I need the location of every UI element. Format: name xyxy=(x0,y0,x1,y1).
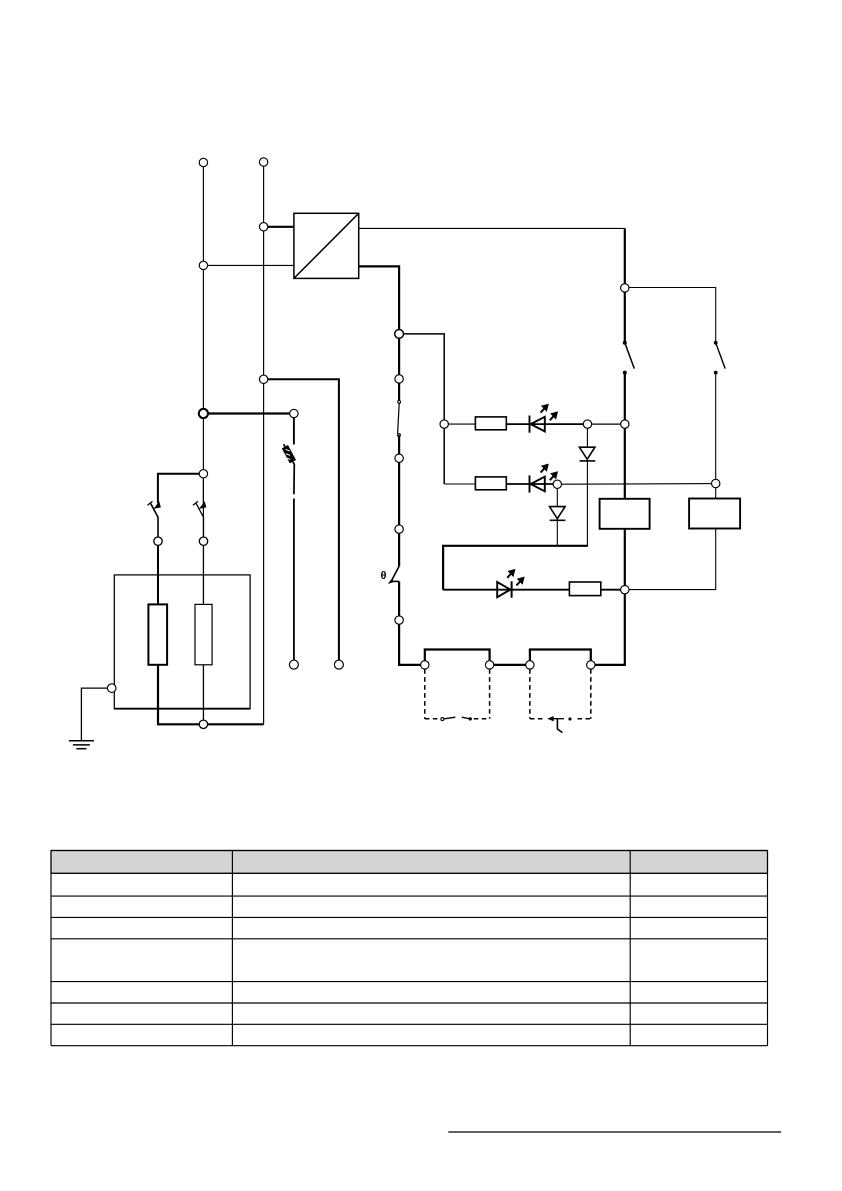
enclosure (heater housing) xyxy=(114,575,250,709)
svg-text:θ: θ xyxy=(381,570,387,582)
wire node A to node B xyxy=(588,423,625,425)
node LED3 / coil return xyxy=(621,586,629,594)
wire LED2 row right xyxy=(506,483,557,485)
ground symbol xyxy=(69,741,94,749)
wire main line x=399 down to switch xyxy=(398,334,400,402)
node A xyxy=(583,420,591,428)
node main line a xyxy=(395,375,403,383)
wire branch node 263 to x=339 riser xyxy=(264,379,339,664)
wire transformer primary input thin xyxy=(203,264,294,266)
node bus 2 xyxy=(485,661,493,669)
footer rule xyxy=(448,1131,781,1133)
wire right riser upper xyxy=(624,228,626,342)
wire bus between boxes xyxy=(490,664,530,666)
relay coil K1 xyxy=(600,499,650,529)
wire LED2 node to right branch thin xyxy=(557,483,715,486)
wire right branch down to node xyxy=(715,373,717,499)
switch Q1 left pole (heater circuit) xyxy=(148,474,204,537)
thermal switch theta xyxy=(388,566,399,583)
switch S5 on main line (closed) xyxy=(398,401,401,437)
wire bus to right riser xyxy=(591,373,625,665)
diode V2 (zener under LED2 node) xyxy=(550,484,566,546)
node main line b xyxy=(395,454,403,462)
node right branch xyxy=(712,479,720,487)
wire transformer primary input thick xyxy=(264,226,294,228)
node switch left bottom xyxy=(154,537,162,545)
dashed auxiliary contact box 2 xyxy=(530,669,591,719)
resistor R1 xyxy=(475,417,506,430)
node LED1 branch xyxy=(440,420,448,428)
wire main line down to bottom bus xyxy=(399,581,425,665)
auxiliary changeover switch in box 2 xyxy=(548,716,572,732)
dashed auxiliary contact box 1 xyxy=(425,669,490,719)
wire branch to second contact line xyxy=(625,288,716,343)
node transformer input 2 xyxy=(199,261,207,269)
wire main line to thermal switch xyxy=(398,435,400,566)
ground wire xyxy=(81,688,107,740)
node main branch xyxy=(395,330,404,339)
switch K1 contact (open) top right left xyxy=(623,341,634,374)
junction node circles xyxy=(107,158,720,729)
auxiliary switch in box 1 xyxy=(441,717,472,720)
node ground on enclosure xyxy=(107,684,116,693)
LED H3 (points right) xyxy=(497,581,511,597)
node neutral bus xyxy=(199,720,207,728)
wire N phase vertical line x=263.6 xyxy=(263,162,265,724)
node bus 3 xyxy=(526,661,534,669)
wire L phase vertical line x=203 xyxy=(202,163,204,725)
wire left heater feed xyxy=(157,545,159,604)
resistor R2 xyxy=(475,477,506,490)
LED H2 (points left) xyxy=(530,475,545,492)
wire heater E1 bottom to neutral bus xyxy=(158,665,264,725)
node N terminal xyxy=(259,158,267,166)
node LED2 / zener xyxy=(553,480,561,488)
node main line c xyxy=(395,525,403,533)
wire bus bump over contact box 1 xyxy=(425,650,490,665)
node L heater branch (bold) xyxy=(199,409,208,418)
wire from K2 coil bottom to LED3 node xyxy=(625,529,716,590)
wire bus bump over contact box 2 xyxy=(530,650,591,665)
node main line d xyxy=(395,616,403,624)
wire heater E2 bottom xyxy=(203,665,205,725)
wire LED3 row xyxy=(443,589,569,591)
heater element E2 xyxy=(195,604,212,664)
node transformer input xyxy=(259,223,267,231)
terminal x339 line xyxy=(334,660,343,669)
node top right xyxy=(621,284,629,292)
LED H2 emission arrows xyxy=(541,464,558,480)
table grid xyxy=(51,851,768,1046)
wire secondary output thin top xyxy=(359,227,625,229)
wire right heater feed xyxy=(203,545,205,604)
wire branch x=444 with LED rows xyxy=(399,334,444,484)
wire LED1 row right xyxy=(506,423,587,425)
node N branch xyxy=(259,375,267,383)
relay coil K2 xyxy=(689,499,740,529)
diode V1 (zener under node A) xyxy=(579,424,595,546)
LED H3 emission arrows xyxy=(507,569,524,585)
LED H1 emission arrows xyxy=(541,404,558,420)
power supply U1 (square with diagonal) xyxy=(294,213,359,278)
wire secondary output thick to main riser xyxy=(359,266,399,334)
wire thick collector line y=545.8 xyxy=(443,546,588,590)
fuse disconnector F1 xyxy=(281,418,295,665)
switch Q1 right pole (heater circuit) xyxy=(193,478,206,537)
node switch right bottom xyxy=(199,537,207,545)
enclosure bottom edge xyxy=(114,708,250,710)
wire LED2 row left xyxy=(444,483,475,485)
wire LED3 row right xyxy=(601,589,625,591)
node bus 4 xyxy=(587,661,595,669)
wire node L to fuse switch xyxy=(203,412,294,414)
terminal fuse line xyxy=(289,660,298,669)
node bus 1 xyxy=(421,661,429,669)
wire LED1 row left xyxy=(444,423,475,425)
node fuse top xyxy=(290,409,298,417)
LED H1 (points left) xyxy=(530,416,545,433)
node B xyxy=(621,420,629,428)
switch K2 contact (open) top right right xyxy=(714,341,725,374)
resistor R3 xyxy=(569,582,600,596)
heater element E1 xyxy=(148,604,167,664)
node L terminal xyxy=(199,158,207,166)
node heater switch split xyxy=(199,470,207,478)
